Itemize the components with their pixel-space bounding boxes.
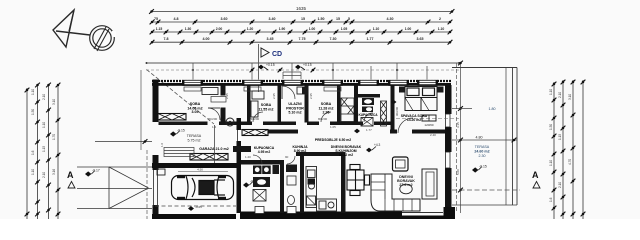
svg-text:3.40: 3.40 (269, 17, 276, 21)
wc fixtures (286, 165, 297, 205)
chain 3 ticks (150, 30, 453, 35)
svg-text:1.10: 1.10 (31, 89, 35, 95)
dashed section line right (452, 189, 520, 191)
bottom exterior wall (152, 214, 236, 219)
bath east wall (280, 160, 284, 213)
svg-text:2.10: 2.10 (558, 182, 562, 188)
svg-text:1.20: 1.20 (247, 27, 254, 31)
svg-text:80/200: 80/200 (318, 117, 328, 121)
soba2 wardrobe (251, 101, 258, 117)
svg-text:24.60 m2: 24.60 m2 (474, 150, 489, 154)
boiler rect (273, 165, 280, 174)
svg-text:-0.17: -0.17 (92, 169, 100, 173)
entry door arc (282, 86, 295, 99)
svg-text:1.10: 1.10 (438, 27, 445, 31)
svg-text:1.15: 1.15 (42, 146, 46, 152)
svg-text:3.65: 3.65 (417, 37, 424, 41)
label predsoblje (315, 138, 351, 142)
top dimension chain line 1 (152, 12, 453, 43)
svg-text:11.55 m2: 11.55 m2 (259, 108, 274, 112)
terasa label (187, 134, 202, 143)
svg-text:38.32 m2: 38.32 m2 (339, 153, 353, 157)
svg-text:KUPAONICA: KUPAONICA (358, 113, 378, 117)
svg-text:3.10: 3.10 (52, 99, 56, 105)
svg-text:SOBA: SOBA (261, 103, 272, 107)
kitchen counter (306, 167, 337, 212)
svg-text:1.90: 1.90 (279, 27, 286, 31)
svg-text:2.10: 2.10 (42, 94, 46, 100)
kitchen door arc (287, 156, 295, 164)
counter block courtyard (233, 146, 251, 152)
level marker garage floor (188, 206, 194, 211)
room label kupaonica (358, 113, 378, 117)
washing machine (253, 166, 262, 175)
left dim chain 1 (27, 84, 58, 219)
svg-text:4.8: 4.8 (174, 17, 179, 21)
level marker diamond 2 (295, 63, 312, 70)
eave dashed line (146, 69, 459, 71)
tv cabinet (422, 169, 437, 199)
right terrace outline (452, 68, 517, 206)
svg-text:7.8: 7.8 (164, 37, 169, 41)
svg-text:1.10: 1.10 (42, 122, 46, 128)
door arc bedroom (398, 118, 413, 133)
svg-text:1.50: 1.50 (318, 17, 325, 21)
svg-text:5.75 m2: 5.75 m2 (188, 139, 201, 143)
svg-text:4.80: 4.80 (476, 136, 483, 140)
svg-text:2.40: 2.40 (430, 133, 436, 137)
svg-text:5.10 m2: 5.10 m2 (288, 111, 301, 115)
door arc soba2 (253, 112, 263, 122)
svg-text:TERASA: TERASA (187, 134, 202, 138)
label dnevni (397, 175, 415, 187)
svg-text:7.30: 7.30 (330, 37, 337, 41)
level marker terrace right (472, 165, 487, 173)
chain 4 numbers (164, 37, 424, 41)
svg-text:90/200: 90/200 (395, 106, 399, 116)
corridor wall lower (238, 130, 445, 135)
driveway line bottom (77, 208, 152, 210)
windows right wall (445, 114, 453, 168)
svg-text:2.10: 2.10 (42, 172, 46, 178)
right dim chains (554, 80, 583, 219)
room label spavaca (401, 114, 428, 122)
level marker driveway (85, 169, 100, 177)
top exterior wall (152, 81, 451, 86)
plot boundary line left (140, 70, 142, 150)
dining table (347, 165, 370, 196)
svg-text:1.70: 1.70 (52, 134, 56, 140)
svg-text:1.50: 1.50 (549, 124, 553, 130)
dresser (422, 115, 436, 121)
svg-text:GARAZA 21.0 m2: GARAZA 21.0 m2 (199, 147, 228, 151)
svg-text:1.0: 1.0 (160, 142, 164, 147)
dashed line right of wall (456, 63, 458, 213)
level diamond hall (354, 129, 360, 134)
fixtures over bottom wall (255, 207, 264, 214)
hall wardrobe (381, 101, 387, 126)
svg-text:1.6: 1.6 (549, 197, 553, 202)
left exterior wall garage (153, 155, 159, 170)
driveway line top (77, 166, 152, 168)
svg-text:+4.3: +4.3 (374, 143, 381, 147)
svg-text:1.10: 1.10 (373, 27, 380, 31)
svg-text:120/60: 120/60 (424, 123, 434, 127)
fridge dark (307, 196, 316, 205)
label dnevni kuhinja (331, 145, 362, 157)
bath door arc (253, 155, 262, 164)
level diamond bedroom (391, 100, 397, 105)
svg-text:2.00: 2.00 (216, 27, 223, 31)
garage dashed line (155, 205, 236, 207)
window band predsoblje (242, 130, 268, 136)
door arc soba3 (321, 112, 331, 122)
wc east wall (300, 152, 304, 213)
tiny dim texts interior (160, 93, 436, 159)
bath north wall (241, 160, 280, 165)
svg-text:4.50: 4.50 (197, 168, 203, 172)
window band soba1 bottom (158, 114, 186, 121)
svg-text:-0.15: -0.15 (177, 129, 185, 133)
svg-text:80/200: 80/200 (208, 117, 218, 121)
left exterior wall upper (153, 80, 159, 123)
vertical dim line right of wall (460, 63, 462, 213)
svg-text:-0.05: -0.05 (195, 205, 202, 209)
svg-text:SOBA: SOBA (321, 102, 332, 106)
svg-text:1.10: 1.10 (549, 160, 553, 166)
interior wall verticals upper band (221, 86, 395, 134)
svg-text:3.15: 3.15 (456, 122, 460, 128)
terrace dim line (452, 139, 517, 141)
left chain numbers (31, 89, 56, 178)
axis dashed bedroom (396, 118, 459, 120)
svg-text:1.20: 1.20 (245, 155, 251, 159)
svg-text:3.16: 3.16 (52, 169, 56, 175)
svg-text:4.30: 4.30 (387, 17, 394, 21)
svg-text:90: 90 (285, 155, 289, 159)
terrace label (474, 145, 489, 158)
svg-text:1.50: 1.50 (31, 109, 35, 115)
label kuhinja (292, 145, 308, 153)
svg-text:4.95 m2: 4.95 m2 (258, 150, 271, 154)
svg-text:1.80: 1.80 (489, 107, 496, 111)
courtyard east edge (214, 125, 216, 163)
garage east wall (237, 118, 242, 213)
bathroom fixtures top (361, 98, 374, 126)
window band garage top (190, 154, 228, 161)
svg-text:3.60: 3.60 (221, 17, 228, 21)
svg-text:8.90 m2: 8.90 m2 (294, 149, 307, 153)
garage shelf (157, 169, 165, 175)
wardrobe closet soba3 (341, 98, 354, 122)
svg-text:15: 15 (336, 17, 340, 21)
dim stub right (452, 108, 472, 110)
svg-text:3.10: 3.10 (568, 94, 572, 100)
svg-text:2.30: 2.30 (479, 154, 486, 158)
svg-text:4.00: 4.00 (203, 37, 210, 41)
label kupaonica 2 (254, 146, 275, 154)
svg-text:15: 15 (301, 17, 305, 21)
svg-text:TERASA: TERASA (475, 145, 490, 149)
svg-text:2: 2 (439, 17, 441, 21)
svg-text:2.95: 2.95 (272, 93, 276, 99)
svg-text:+0.15: +0.15 (303, 63, 312, 67)
armchair (393, 157, 409, 171)
svg-text:2.95: 2.95 (309, 93, 313, 99)
bath north wall (358, 94, 380, 98)
kitchen north wall (296, 152, 341, 156)
chain 4 ticks (150, 40, 453, 45)
room label soba3 (319, 102, 334, 115)
svg-text:1.00: 1.00 (309, 27, 316, 31)
radiator soba1 (184, 87, 201, 91)
svg-text:PREDSOBLJE 6.50 m2: PREDSOBLJE 6.50 m2 (315, 138, 351, 142)
bath counter (253, 177, 270, 187)
sofa L (371, 174, 420, 211)
entry steps (283, 72, 301, 79)
svg-text:1.05: 1.05 (330, 125, 336, 129)
driveway line mid (77, 188, 152, 190)
soba2 desk (252, 91, 264, 99)
door arc bath (364, 113, 373, 122)
svg-text:1.00: 1.00 (405, 27, 412, 31)
room label soba2 (259, 103, 274, 112)
svg-text:1.15: 1.15 (558, 134, 562, 140)
corridor wall upper (159, 122, 392, 126)
svg-text:80/200: 80/200 (250, 117, 260, 121)
svg-text:1.77: 1.77 (366, 128, 372, 132)
svg-text:ULAZNI: ULAZNI (288, 102, 301, 106)
dim line left of wall (95, 141, 152, 143)
radiator soba2 (244, 87, 261, 91)
bench planter lines courtyard (164, 148, 194, 157)
svg-text:1.05: 1.05 (341, 27, 348, 31)
right exterior wall (445, 85, 452, 219)
svg-text:1.15: 1.15 (156, 27, 163, 31)
level marker diamond 1 (258, 63, 275, 70)
svg-text:1.10: 1.10 (31, 169, 35, 175)
room label soba1 (187, 102, 202, 114)
svg-text:5.00: 5.00 (456, 169, 460, 175)
svg-text:2.95: 2.95 (323, 111, 330, 115)
chain 2 numbers (154, 17, 441, 21)
roof eave line (146, 62, 459, 64)
bath west wall (354, 86, 358, 123)
svg-text:SOBA: SOBA (190, 102, 201, 106)
north arrow (53, 10, 116, 51)
dashed line x147 (146, 150, 148, 219)
coffee table oval (400, 184, 412, 194)
svg-text:1.77: 1.77 (367, 37, 374, 41)
garage north wall (152, 163, 238, 168)
svg-text:1.4: 1.4 (212, 125, 217, 129)
svg-text:1.6: 1.6 (31, 150, 35, 155)
svg-text:3.45: 3.45 (267, 37, 274, 41)
ramp arrow (109, 167, 149, 209)
chain 2 ticks (150, 20, 453, 25)
svg-text:CD: CD (272, 51, 282, 58)
svg-text:1.10: 1.10 (549, 89, 553, 95)
soba1 desk (202, 88, 218, 95)
car (172, 175, 234, 200)
right chain numbers (549, 89, 572, 202)
windows in top wall (182, 80, 438, 86)
svg-text:3.05: 3.05 (192, 110, 199, 114)
radiator soba3 (324, 87, 341, 91)
svg-text:1635: 1635 (296, 6, 307, 11)
door arc soba1 (208, 108, 220, 120)
car dim line (178, 171, 228, 173)
svg-text:7.75: 7.75 (299, 37, 306, 41)
room label garaza (199, 147, 228, 151)
svg-text:+0.15: +0.15 (266, 63, 275, 67)
room label hodnik (286, 102, 304, 115)
svg-text:4.70: 4.70 (568, 159, 572, 165)
kitchen east wall (341, 152, 346, 213)
window witness lines above top wall (193, 63, 427, 80)
svg-text:-0.15: -0.15 (479, 165, 487, 169)
stove dark (308, 179, 316, 185)
svg-text:75: 75 (154, 17, 158, 21)
bed double (405, 87, 437, 111)
boiler circle (226, 118, 234, 126)
svg-text:1.30: 1.30 (185, 27, 192, 31)
svg-text:-0.02: -0.02 (250, 180, 258, 184)
section marker CD (259, 44, 283, 92)
level marker garage bath (243, 180, 258, 188)
level marker terrace (170, 129, 185, 137)
chain 3 numbers (156, 27, 445, 31)
shower (253, 190, 266, 202)
nightstand right (438, 87, 444, 93)
vestibule closet (297, 87, 307, 94)
svg-text:2.10: 2.10 (558, 92, 562, 98)
nightstand (399, 87, 405, 93)
svg-text:2.95: 2.95 (225, 93, 229, 99)
svg-text:A: A (67, 170, 74, 180)
roof valley diagonal dashed (147, 70, 215, 125)
svg-text:A: A (532, 170, 539, 180)
svg-text:5: 5 (348, 17, 350, 21)
